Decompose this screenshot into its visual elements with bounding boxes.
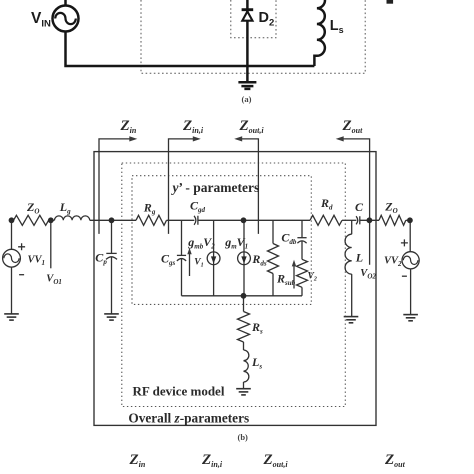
- stub V_o1: [50, 220, 52, 268]
- arrow V1: [187, 248, 191, 276]
- wire Lg to Rg: [90, 219, 136, 221]
- current source gm V1: [238, 220, 251, 295]
- capacitor C: [356, 216, 360, 224]
- node output: [367, 217, 373, 223]
- resistor Rg: [136, 215, 167, 225]
- dashed box section (a): [141, 0, 365, 73]
- source VV1: [3, 220, 26, 313]
- cropped glyph top right: [387, 0, 394, 4]
- svg-text:Overall z-parameters: Overall z-parameters: [128, 411, 249, 426]
- dashed box around D2: [231, 0, 276, 38]
- inductor L branch: [345, 220, 352, 316]
- node Cp tap: [109, 217, 115, 223]
- source V_IN: [53, 0, 315, 66]
- node left end: [9, 217, 15, 223]
- Z_in reference line and arrow: [99, 139, 131, 234]
- box RF device model (dotted): [122, 163, 345, 407]
- diode D2 branch wire: [246, 0, 249, 82]
- wire left of Z_O: [12, 219, 14, 221]
- capacitor Cgd: [194, 216, 198, 225]
- resistor Rsub: [297, 259, 308, 296]
- wire C to Z_O right: [360, 219, 379, 221]
- node VV2: [407, 217, 413, 223]
- Z_in,i reference line and arrow: [169, 139, 195, 234]
- node gate-drain rail: [241, 217, 247, 223]
- svg-text:y’ - parameters: y’ - parameters: [171, 180, 260, 195]
- ground Cp: [104, 314, 119, 320]
- ground of section (a): [238, 82, 256, 89]
- ground Rs-Ls: [236, 389, 251, 395]
- source VV2: [401, 220, 419, 314]
- capacitor Cp branch: [106, 220, 117, 313]
- ground L: [344, 317, 359, 323]
- current source gmb V2: [207, 220, 220, 295]
- resistor Z_O (left): [14, 215, 49, 225]
- wire to right node: [406, 219, 410, 221]
- Z_out reference line and arrow: [342, 139, 369, 265]
- box overall z-parameters (solid): [94, 152, 376, 426]
- inductor Ls of section (a): [314, 0, 325, 66]
- box y-parameters (dotted): [132, 176, 311, 305]
- svg-text:(b): (b): [238, 432, 249, 442]
- capacitor Cdb: [297, 220, 306, 259]
- wire: [49, 219, 55, 221]
- svg-text:C: C: [355, 200, 364, 214]
- svg-text:(a): (a): [242, 94, 252, 104]
- ground VV2: [403, 315, 418, 321]
- node V_o1 tap: [48, 217, 54, 223]
- svg-text:L: L: [355, 251, 363, 265]
- wire Rg to Cgd: [167, 219, 195, 221]
- diode D2: [242, 10, 254, 21]
- bottom rail: [182, 295, 303, 297]
- capacitor Cgs branch: [177, 220, 186, 295]
- inductor Lg: [55, 216, 90, 220]
- arrow V2: [292, 260, 296, 289]
- inductor Ls branch (b): [244, 350, 249, 389]
- resistor Rds branch: [268, 220, 279, 295]
- ground VV1: [4, 314, 19, 320]
- Z_out,i reference line and arrow: [241, 139, 259, 234]
- wire Cgd to Rd: [198, 219, 310, 221]
- resistor Rs branch: [238, 296, 250, 350]
- node source rail: [241, 293, 247, 299]
- resistor Rd: [310, 215, 342, 225]
- svg-text:gmV1: gmV1: [224, 235, 248, 251]
- resistor Z_O (right): [379, 215, 406, 225]
- svg-text:RF device model: RF device model: [133, 384, 225, 399]
- wire Rd to C: [342, 219, 356, 221]
